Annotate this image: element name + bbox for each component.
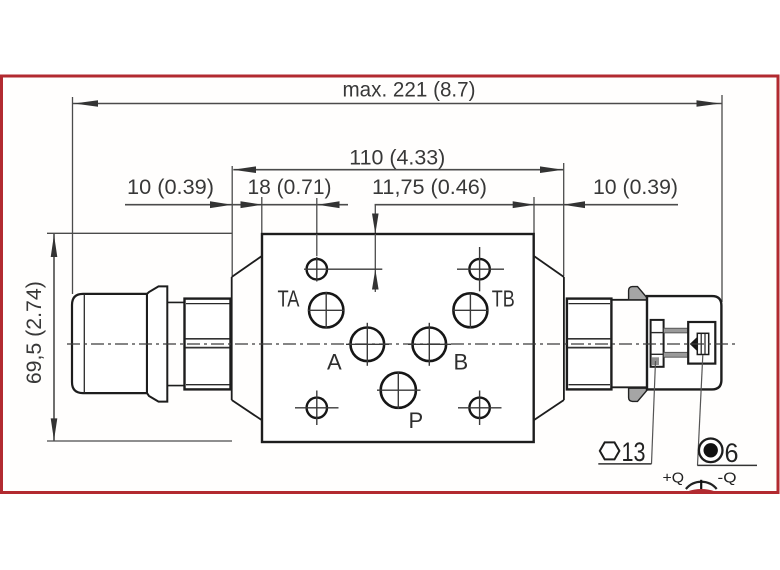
dimension 10 (0.39) left — [125, 176, 348, 208]
port B — [408, 323, 468, 375]
collar — [167, 302, 184, 385]
left body chamfer (trapezoid) — [232, 256, 262, 420]
dimension 10 (0.39) right — [513, 176, 678, 234]
svg-text:A: A — [327, 350, 342, 375]
knob end cap — [72, 294, 147, 393]
dimension 110 (4.33) — [232, 147, 564, 277]
bottom gray tab — [629, 388, 647, 401]
plug element — [688, 322, 715, 364]
bolt hole bottom-right — [458, 391, 502, 426]
adjustment dial arc — [686, 480, 717, 493]
right body chamfer (trapezoid) — [534, 256, 564, 420]
port TB — [452, 286, 514, 329]
centerline (valve axis) — [67, 343, 737, 345]
port P — [377, 372, 423, 434]
+Q label — [663, 470, 685, 487]
svg-text:B: B — [454, 350, 469, 375]
terminal block — [651, 320, 664, 367]
svg-text:max. 221 (8.7): max. 221 (8.7) — [343, 79, 476, 102]
svg-text:10 (0.39): 10 (0.39) — [593, 176, 678, 199]
red page border — [2, 76, 779, 493]
contact pins — [664, 328, 691, 357]
svg-text:69,5 (2.74): 69,5 (2.74) — [23, 281, 46, 384]
bolt hole top-left — [304, 257, 382, 282]
bolt hole top-right — [457, 247, 504, 291]
leader line wrench size 13 — [598, 361, 655, 464]
left hex nut — [185, 299, 231, 390]
connector housing — [647, 296, 721, 389]
dimension 18 (0.71) — [241, 176, 340, 256]
svg-text:110 (4.33): 110 (4.33) — [349, 147, 445, 170]
knob flange — [147, 286, 167, 401]
svg-text:TA: TA — [278, 286, 301, 312]
port TA — [278, 286, 345, 329]
hex socket 6 label — [699, 438, 739, 468]
svg-text:TB: TB — [492, 286, 515, 312]
dimension 69,5 (2.74) — [23, 233, 232, 441]
-Q label — [718, 470, 737, 487]
dimension 11,75 (0.46) — [372, 176, 678, 236]
svg-text:18 (0.71): 18 (0.71) — [248, 176, 332, 199]
leader line hex socket 6 — [697, 355, 757, 465]
svg-text:11,75 (0.46): 11,75 (0.46) — [372, 176, 487, 199]
top gray tab — [629, 287, 647, 300]
valve body mounting face — [262, 234, 534, 442]
svg-text:10 (0.39): 10 (0.39) — [127, 176, 214, 199]
svg-text:-Q: -Q — [718, 470, 737, 487]
connector neck — [611, 300, 647, 388]
svg-text:+Q: +Q — [663, 470, 685, 487]
right hex nut — [567, 299, 612, 390]
dimension 18 interior extension line — [316, 234, 318, 256]
dimension max. 221 (8.7) — [73, 79, 723, 303]
bolt hole bottom-left — [295, 391, 339, 426]
dimension 11,75 interior extension line and arrow — [372, 234, 379, 292]
port A — [327, 323, 389, 375]
svg-text:13: 13 — [622, 437, 646, 467]
svg-text:6: 6 — [725, 438, 739, 468]
wrench size hexagon 13 label — [600, 437, 646, 467]
svg-text:P: P — [409, 408, 424, 433]
